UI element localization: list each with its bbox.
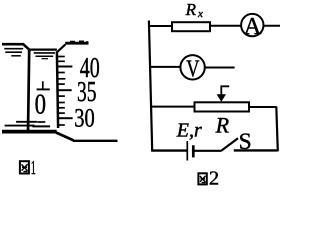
svg-text:2: 2 [209, 169, 219, 188]
svg-text:1: 1 [31, 157, 36, 179]
svg-text:S: S [239, 129, 252, 155]
svg-text:x: x [197, 8, 203, 20]
svg-text:R: R [185, 0, 197, 19]
svg-text:R: R [215, 112, 230, 137]
svg-text:E,r: E,r [176, 120, 202, 142]
svg-text:A: A [244, 13, 262, 40]
svg-text:V: V [186, 57, 200, 83]
svg-text:30: 30 [74, 103, 95, 132]
svg-text:0: 0 [35, 88, 46, 120]
